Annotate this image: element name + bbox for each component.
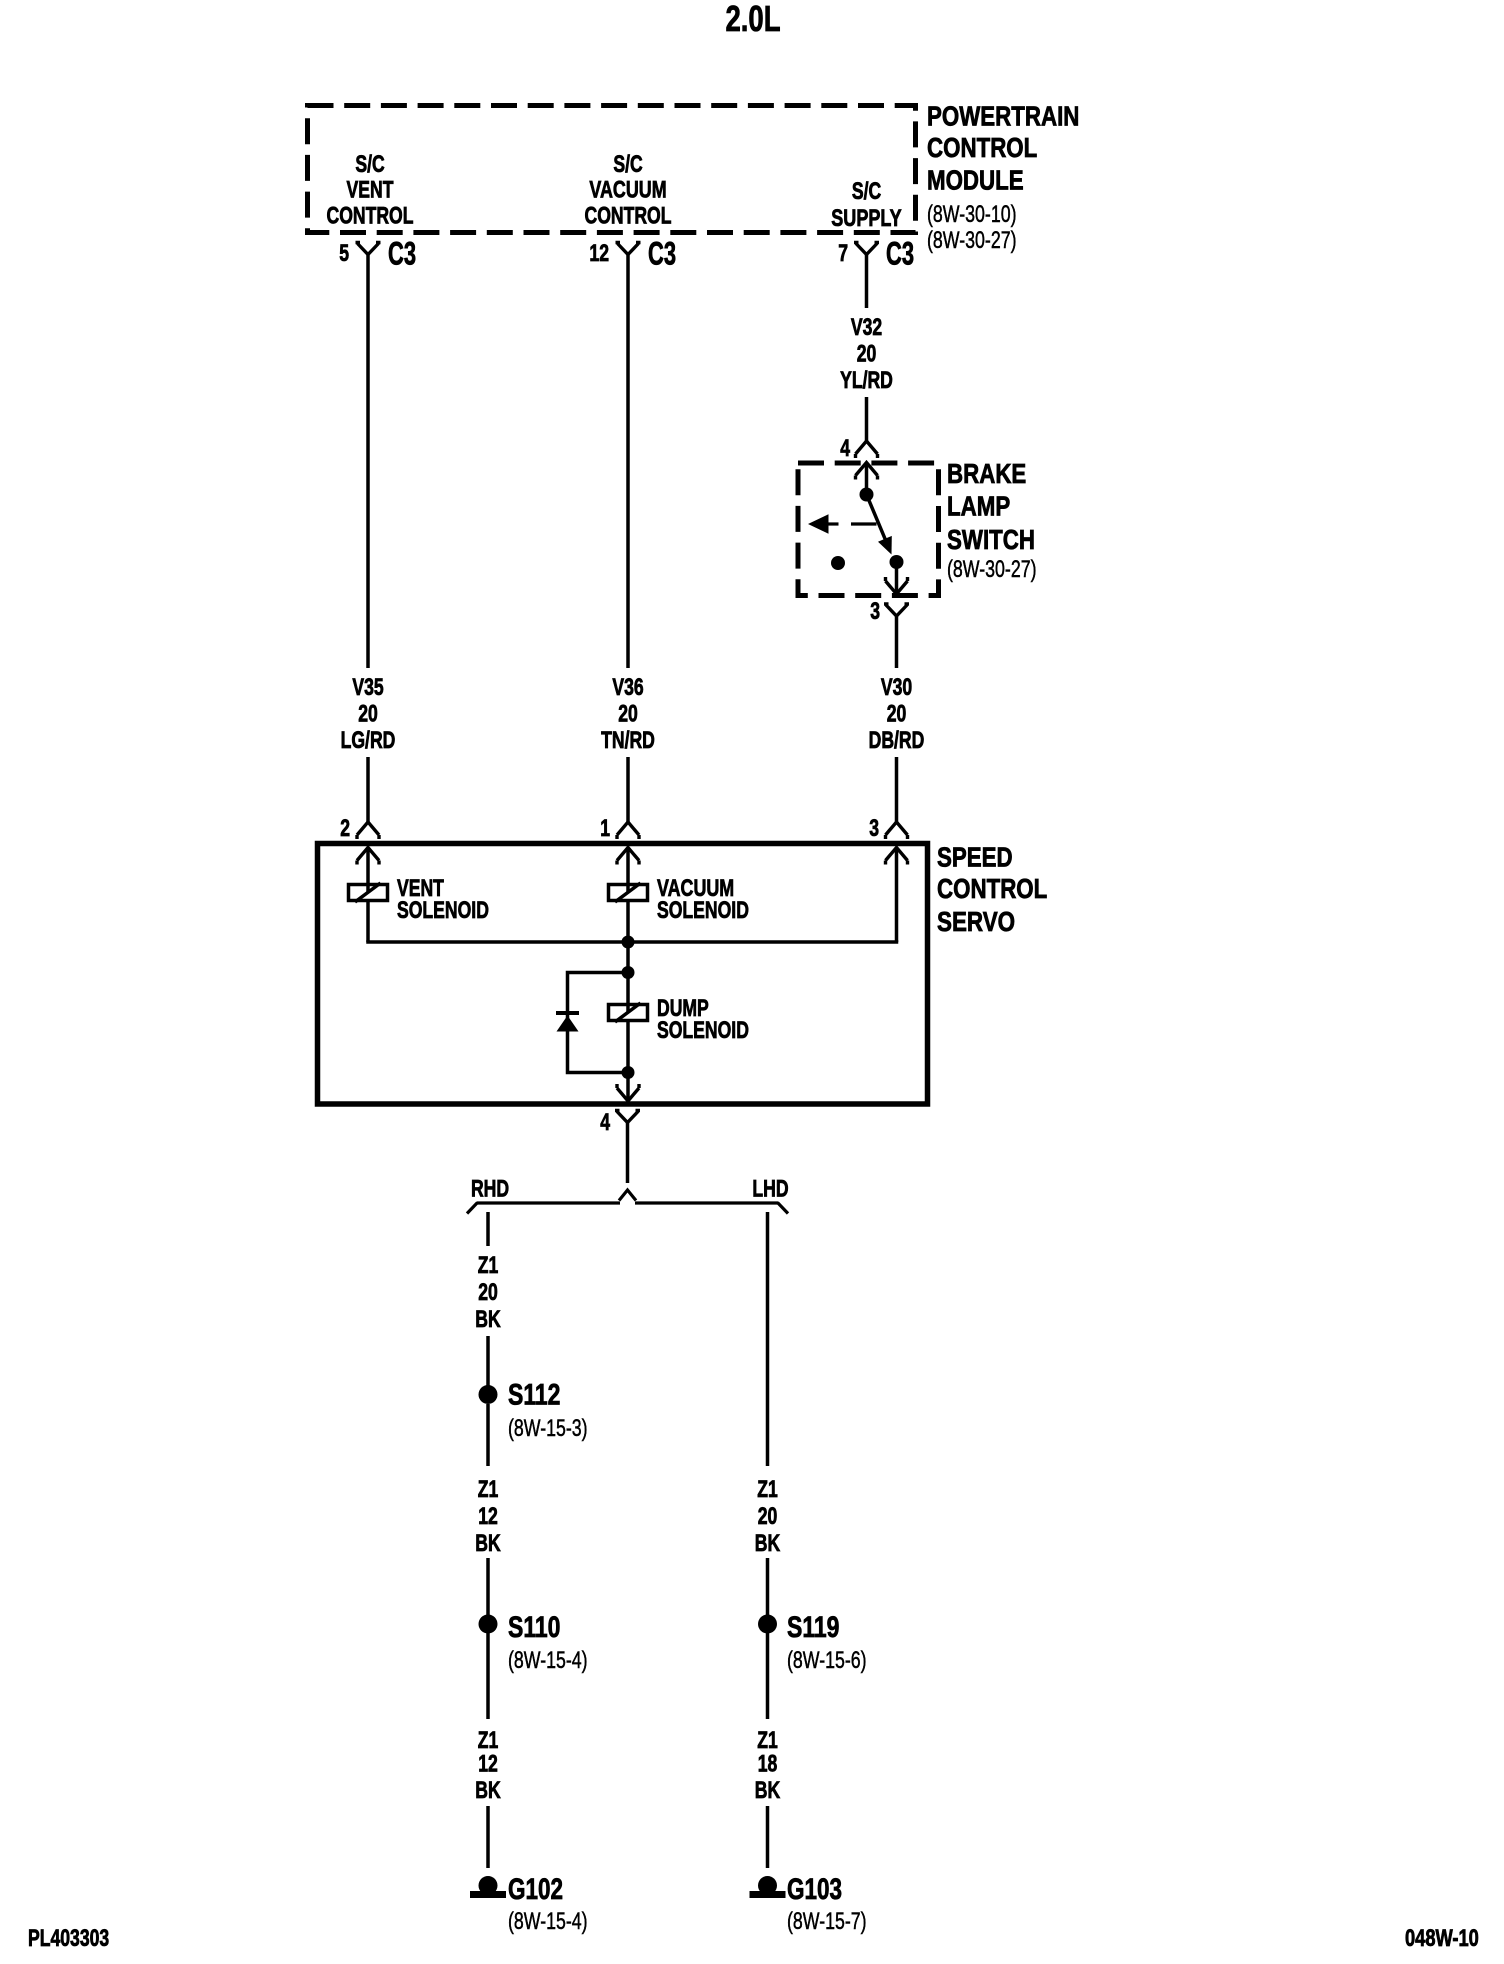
svg-text:C3: C3 bbox=[648, 236, 676, 272]
svg-text:18: 18 bbox=[758, 1751, 778, 1778]
servo pin 1 entry chevron bbox=[617, 848, 639, 865]
svg-text:5: 5 bbox=[339, 240, 349, 267]
svg-text:Z1: Z1 bbox=[478, 1252, 499, 1279]
wire to S112 bbox=[486, 1336, 490, 1386]
svg-text:20: 20 bbox=[758, 1503, 778, 1530]
svg-text:20: 20 bbox=[358, 701, 378, 728]
svg-text:SUPPLY: SUPPLY bbox=[831, 205, 901, 232]
right hook bbox=[778, 1203, 789, 1214]
diode D1 bbox=[556, 1011, 579, 1015]
svg-text:BRAKE: BRAKE bbox=[947, 458, 1026, 489]
svg-text:20: 20 bbox=[618, 701, 638, 728]
dump solenoid wire lower bbox=[626, 1021, 630, 1073]
svg-text:BK: BK bbox=[475, 1777, 501, 1804]
wire V36 upper bbox=[626, 255, 630, 669]
svg-text:12: 12 bbox=[478, 1751, 498, 1778]
servo output wire bbox=[626, 1073, 630, 1100]
svg-text:VENT: VENT bbox=[347, 177, 394, 204]
svg-text:12: 12 bbox=[589, 240, 609, 267]
svg-text:CONTROL: CONTROL bbox=[585, 203, 672, 230]
svg-text:(8W-15-6): (8W-15-6) bbox=[787, 1647, 867, 1674]
svg-text:12: 12 bbox=[478, 1503, 498, 1530]
svg-text:(8W-30-27): (8W-30-27) bbox=[947, 556, 1037, 583]
module PCM dashed box bbox=[308, 106, 916, 233]
dump solenoid coil bbox=[609, 1005, 648, 1021]
svg-text:SERVO: SERVO bbox=[937, 906, 1015, 937]
svg-text:(8W-30-10): (8W-30-10) bbox=[927, 201, 1017, 228]
switch lower-left contact node bbox=[831, 556, 845, 570]
wire bus to dump branch bbox=[626, 942, 630, 973]
wire LHD upper bbox=[766, 1212, 770, 1466]
svg-text:3: 3 bbox=[870, 598, 880, 625]
servo pin 2 entry chevron bbox=[357, 848, 379, 865]
svg-text:7: 7 bbox=[838, 240, 848, 267]
svg-text:Z1: Z1 bbox=[478, 1476, 499, 1503]
switch output wire bbox=[895, 562, 899, 594]
svg-text:POWERTRAIN: POWERTRAIN bbox=[927, 101, 1079, 132]
ground G103 bbox=[758, 1876, 777, 1895]
wire S119 down bbox=[766, 1633, 770, 1719]
left hook bbox=[467, 1203, 478, 1214]
svg-text:LG/RD: LG/RD bbox=[341, 727, 396, 754]
wire S112 to label bbox=[486, 1404, 490, 1466]
wire S110 down bbox=[486, 1633, 490, 1719]
option bus left bbox=[477, 1201, 620, 1204]
wire V35 lower bbox=[366, 757, 370, 822]
svg-text:20: 20 bbox=[887, 701, 907, 728]
svg-text:4: 4 bbox=[600, 1109, 610, 1136]
svg-text:(8W-15-4): (8W-15-4) bbox=[508, 1908, 588, 1935]
svg-text:SOLENOID: SOLENOID bbox=[657, 897, 749, 924]
wire to G102 bbox=[486, 1806, 490, 1868]
svg-text:S/C: S/C bbox=[852, 178, 881, 205]
svg-text:G102: G102 bbox=[508, 1873, 563, 1906]
svg-text:SWITCH: SWITCH bbox=[947, 524, 1035, 555]
svg-text:VACUUM: VACUUM bbox=[589, 177, 666, 204]
svg-text:BK: BK bbox=[755, 1530, 781, 1557]
svg-text:CONTROL: CONTROL bbox=[937, 873, 1047, 904]
switch actuator arrow bbox=[808, 514, 829, 534]
wire V32 upper bbox=[865, 255, 869, 309]
svg-text:3: 3 bbox=[869, 815, 879, 842]
diode branch wire bbox=[568, 973, 629, 1073]
ground G102 bbox=[479, 1876, 498, 1895]
svg-text:S110: S110 bbox=[508, 1611, 561, 1644]
svg-text:S/C: S/C bbox=[613, 151, 642, 178]
vent solenoid coil bbox=[349, 885, 388, 901]
switch common wire bbox=[865, 463, 869, 491]
svg-text:1: 1 bbox=[600, 815, 610, 842]
svg-text:V35: V35 bbox=[352, 674, 383, 701]
svg-text:MODULE: MODULE bbox=[927, 165, 1024, 196]
junction node dump/diode bbox=[622, 966, 635, 979]
servo pin 4 exit arrow bbox=[617, 1084, 639, 1101]
servo pin 3 entry chevron bbox=[886, 848, 908, 865]
vacuum solenoid wire upper bbox=[626, 848, 630, 894]
junction node below dump bbox=[622, 1066, 635, 1079]
vent solenoid wire upper bbox=[366, 848, 370, 894]
svg-text:CONTROL: CONTROL bbox=[327, 203, 414, 230]
svg-text:S119: S119 bbox=[787, 1611, 840, 1644]
switch pin 4 entry chevron bbox=[856, 463, 878, 480]
junction node on bus bbox=[622, 936, 635, 949]
svg-text:LHD: LHD bbox=[752, 1176, 788, 1203]
svg-text:PL403303: PL403303 bbox=[28, 1925, 109, 1952]
svg-text:Z1: Z1 bbox=[757, 1476, 778, 1503]
vacuum solenoid coil bbox=[609, 885, 648, 901]
svg-text:048W-10: 048W-10 bbox=[1405, 1925, 1479, 1952]
splice S112 bbox=[479, 1385, 498, 1404]
svg-text:V32: V32 bbox=[851, 314, 882, 341]
wire V30 upper bbox=[895, 616, 899, 668]
svg-text:20: 20 bbox=[478, 1279, 498, 1306]
svg-text:S112: S112 bbox=[508, 1379, 561, 1412]
splice option chevron bbox=[619, 1190, 636, 1201]
svg-text:4: 4 bbox=[840, 435, 850, 462]
svg-text:(8W-30-27): (8W-30-27) bbox=[927, 227, 1017, 254]
common bus wire bbox=[366, 940, 898, 944]
svg-text:V30: V30 bbox=[881, 674, 912, 701]
splice S119 bbox=[758, 1615, 777, 1634]
svg-text:YL/RD: YL/RD bbox=[840, 367, 893, 394]
wire Z1 20 BK RHD upper bbox=[486, 1212, 490, 1246]
svg-text:DB/RD: DB/RD bbox=[869, 727, 925, 754]
switch output contact node bbox=[890, 555, 904, 569]
svg-text:LAMP: LAMP bbox=[947, 491, 1010, 522]
svg-text:(8W-15-7): (8W-15-7) bbox=[787, 1908, 867, 1935]
svg-text:C3: C3 bbox=[886, 236, 914, 272]
svg-text:(8W-15-4): (8W-15-4) bbox=[508, 1647, 588, 1674]
svg-text:CONTROL: CONTROL bbox=[927, 132, 1037, 163]
svg-text:BK: BK bbox=[755, 1777, 781, 1804]
option bus right bbox=[635, 1201, 778, 1204]
supply wire inside servo bbox=[895, 848, 899, 943]
svg-text:BK: BK bbox=[475, 1530, 501, 1557]
svg-text:SPEED: SPEED bbox=[937, 842, 1013, 873]
svg-text:C3: C3 bbox=[388, 236, 416, 272]
svg-text:V36: V36 bbox=[612, 674, 643, 701]
wire V32 lower bbox=[865, 397, 869, 441]
switch pin 3 exit arrow bbox=[886, 577, 908, 594]
svg-text:2: 2 bbox=[340, 815, 350, 842]
svg-text:S/C: S/C bbox=[355, 151, 384, 178]
svg-text:TN/RD: TN/RD bbox=[601, 727, 655, 754]
wire servo output bbox=[626, 1123, 630, 1184]
svg-text:(8W-15-3): (8W-15-3) bbox=[508, 1415, 588, 1442]
vent solenoid wire lower bbox=[366, 900, 370, 942]
dump solenoid wire upper bbox=[626, 973, 630, 1014]
wire V30 lower bbox=[895, 757, 899, 822]
svg-text:SOLENOID: SOLENOID bbox=[657, 1017, 749, 1044]
wire V35 upper bbox=[366, 255, 370, 669]
wire to S110 bbox=[486, 1558, 490, 1615]
vacuum solenoid wire lower bbox=[626, 900, 630, 942]
svg-text:G103: G103 bbox=[787, 1873, 842, 1906]
switch S1 brake lamp switch dashed box bbox=[798, 463, 939, 596]
svg-text:BK: BK bbox=[475, 1306, 501, 1333]
wire to S119 bbox=[766, 1558, 770, 1615]
switch movable contact arm bbox=[867, 495, 888, 544]
splice S110 bbox=[479, 1615, 498, 1634]
svg-text:RHD: RHD bbox=[471, 1176, 509, 1203]
svg-text:SOLENOID: SOLENOID bbox=[397, 897, 489, 924]
svg-text:20: 20 bbox=[857, 341, 877, 368]
wire to G103 bbox=[766, 1806, 770, 1868]
switch common contact node bbox=[860, 488, 874, 502]
wire V36 lower bbox=[626, 757, 630, 822]
svg-text:2.0L: 2.0L bbox=[725, 0, 780, 39]
servo U1 speed control servo box bbox=[318, 844, 928, 1105]
